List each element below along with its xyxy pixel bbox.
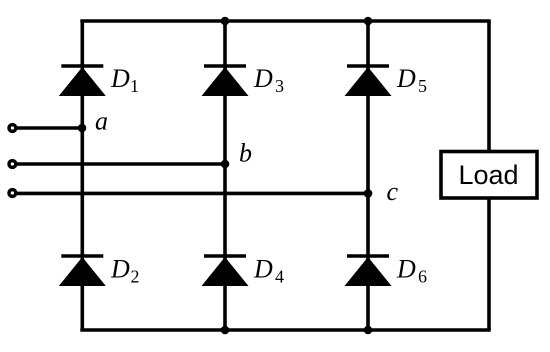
svg-text:D: D (253, 255, 273, 284)
svg-text:Load: Load (459, 160, 519, 190)
svg-text:4: 4 (275, 267, 284, 287)
svg-text:D: D (396, 64, 416, 93)
svg-text:5: 5 (418, 76, 427, 96)
svg-text:6: 6 (418, 267, 427, 287)
svg-text:2: 2 (131, 267, 140, 287)
svg-text:D: D (110, 255, 130, 284)
svg-text:3: 3 (275, 76, 284, 96)
svg-text:D: D (253, 64, 273, 93)
svg-text:c: c (387, 177, 399, 206)
svg-text:a: a (95, 107, 108, 136)
svg-text:b: b (239, 139, 252, 168)
svg-text:D: D (396, 255, 416, 284)
svg-text:1: 1 (130, 76, 139, 96)
svg-text:D: D (110, 64, 130, 93)
